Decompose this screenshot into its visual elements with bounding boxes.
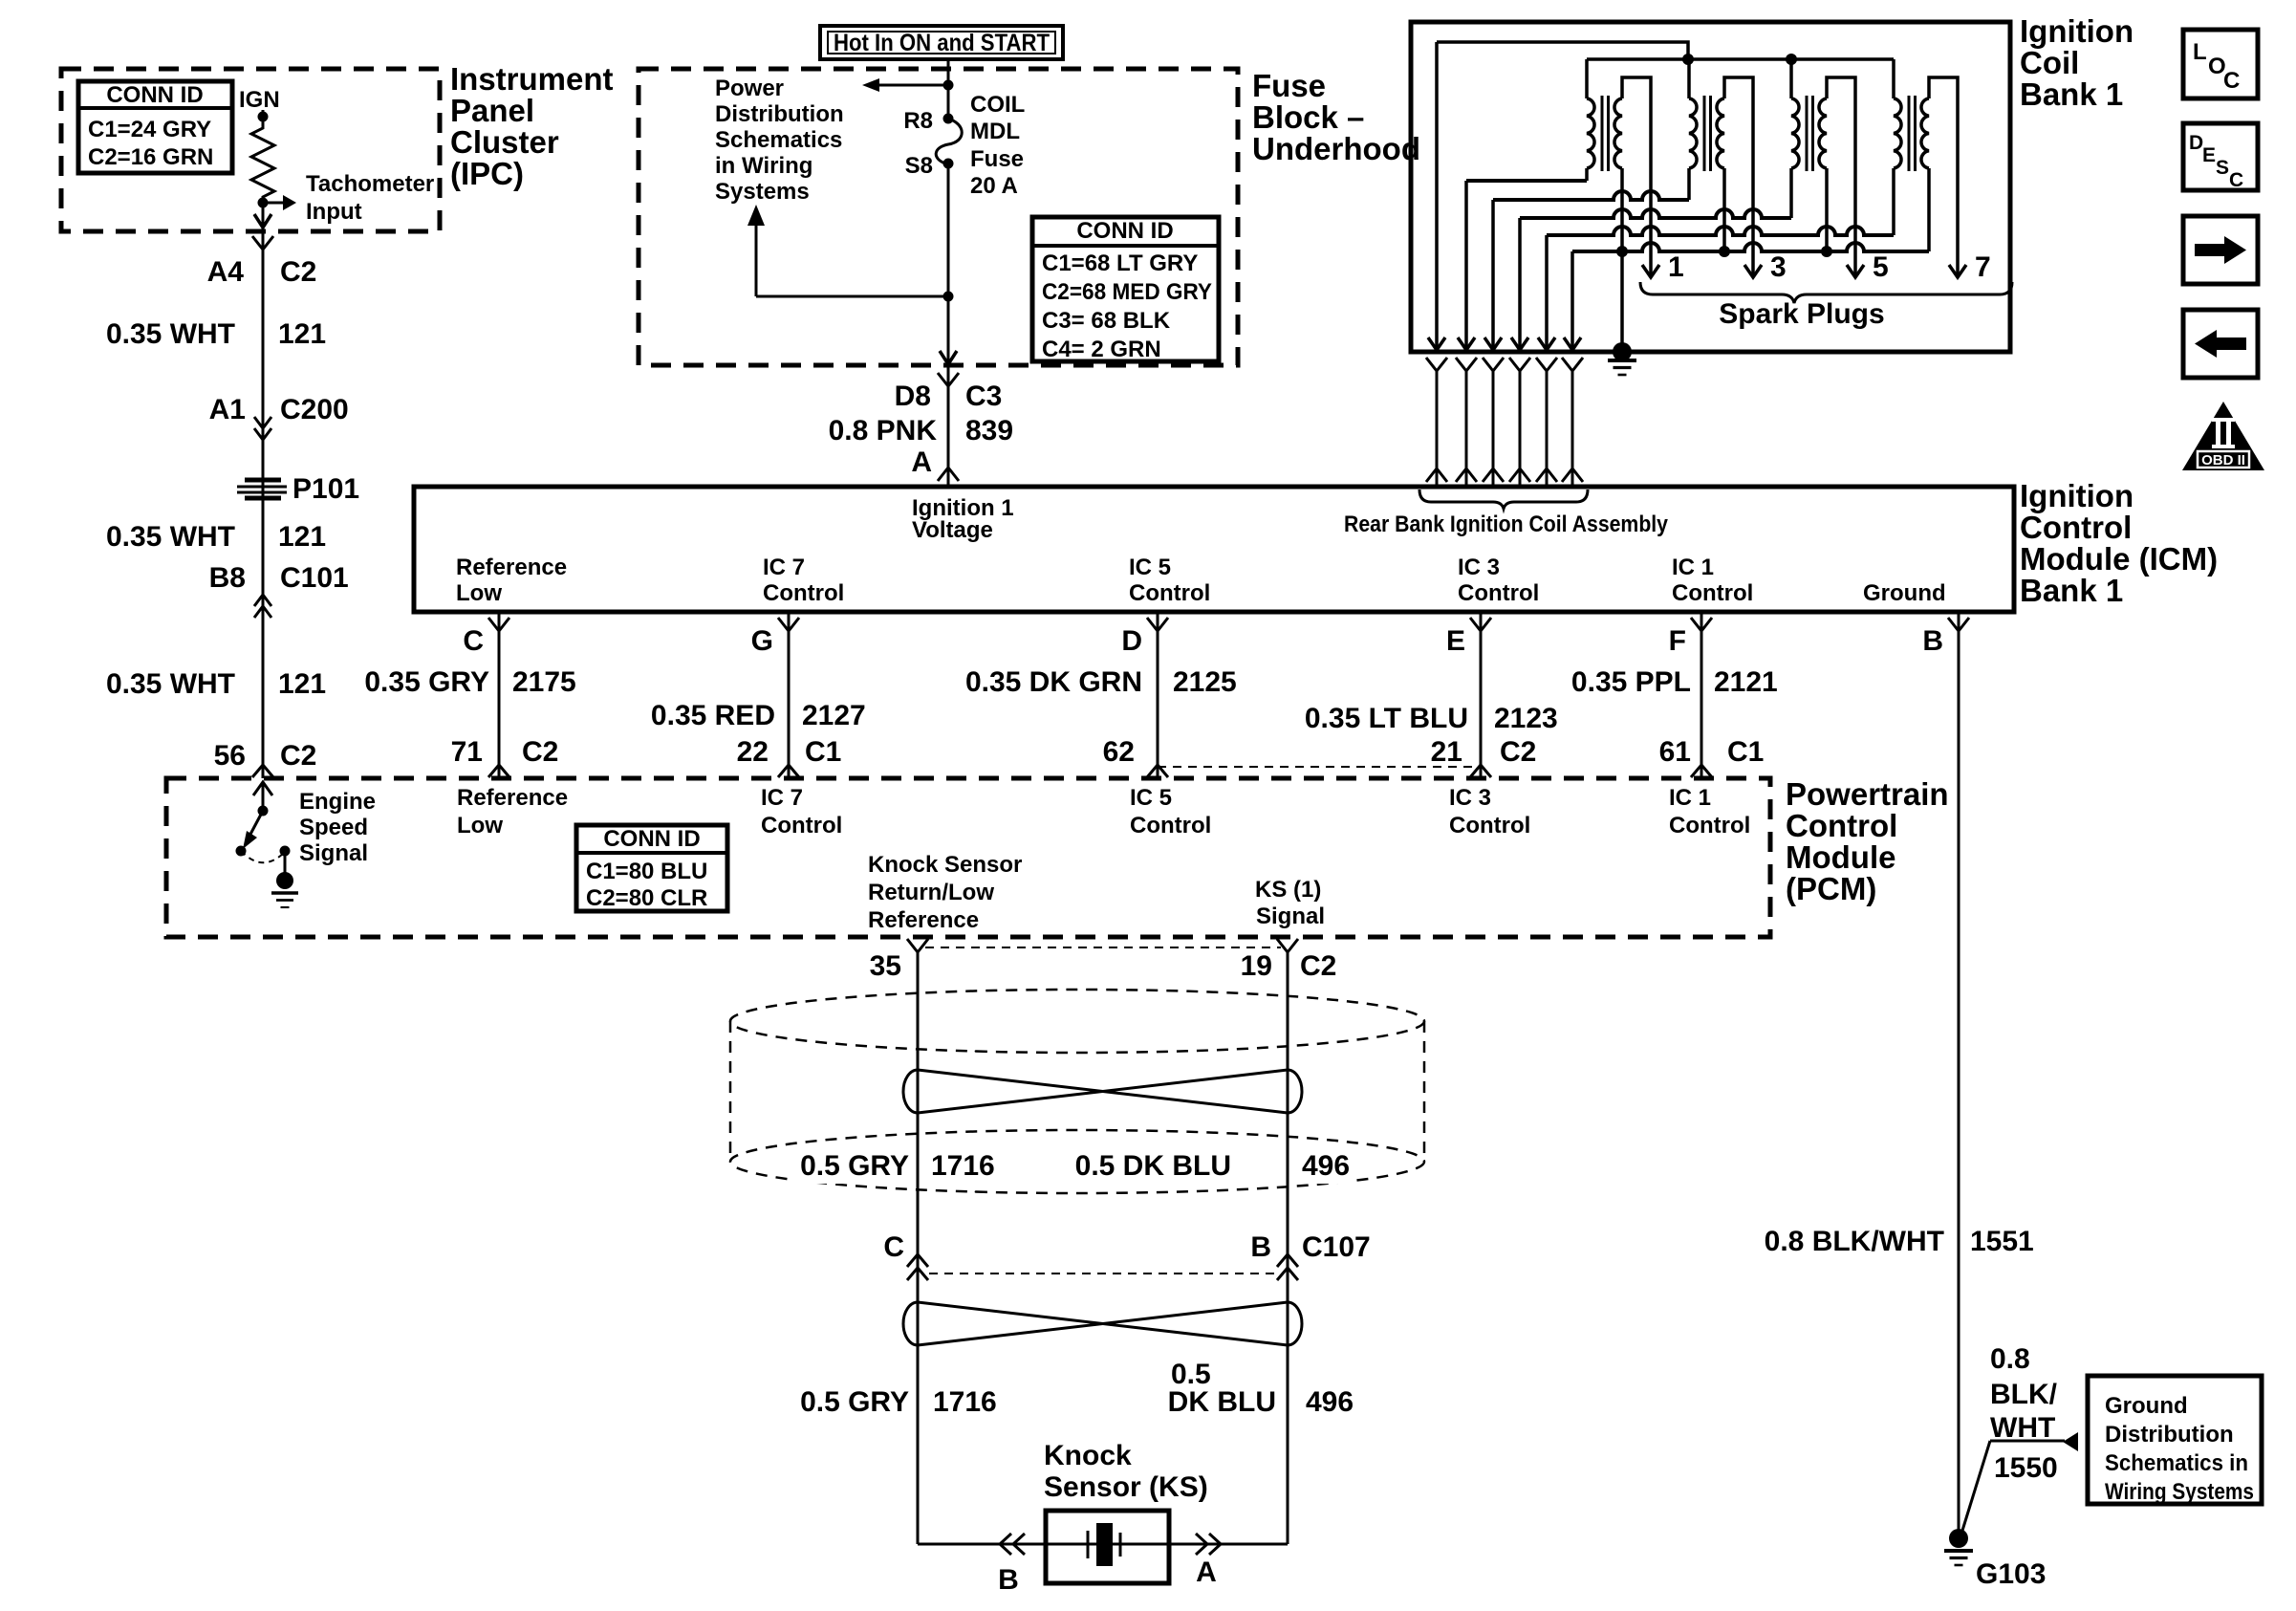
svg-text:S8: S8: [905, 153, 933, 179]
svg-text:Powertrain: Powertrain: [1786, 776, 1949, 812]
svg-text:Fuse: Fuse: [1252, 68, 1326, 103]
svg-text:C1=24 GRY: C1=24 GRY: [88, 117, 211, 142]
svg-text:0.35 WHT: 0.35 WHT: [106, 668, 235, 700]
svg-text:839: 839: [965, 415, 1013, 446]
svg-text:C1=80 BLU: C1=80 BLU: [586, 859, 707, 884]
svg-text:F: F: [1669, 625, 1686, 657]
svg-text:CONN ID: CONN ID: [1076, 218, 1173, 244]
svg-text:D: D: [1121, 625, 1142, 657]
svg-text:0.5 DK BLU: 0.5 DK BLU: [1075, 1150, 1231, 1182]
svg-text:IC 3: IC 3: [1458, 555, 1500, 580]
svg-text:0.8: 0.8: [1990, 1343, 2030, 1375]
svg-text:Spark Plugs: Spark Plugs: [1719, 298, 1884, 330]
svg-text:G103: G103: [1976, 1558, 2046, 1590]
svg-text:A1: A1: [209, 394, 246, 425]
svg-text:A: A: [1196, 1557, 1217, 1588]
svg-text:C1: C1: [805, 736, 841, 768]
svg-text:Return/Low: Return/Low: [868, 880, 994, 905]
svg-text:Knock Sensor: Knock Sensor: [868, 852, 1022, 878]
svg-text:496: 496: [1302, 1150, 1350, 1182]
svg-text:Bank 1: Bank 1: [2020, 573, 2123, 608]
svg-text:Systems: Systems: [715, 179, 810, 205]
svg-text:IC 1: IC 1: [1669, 785, 1711, 811]
svg-text:C: C: [2229, 169, 2243, 191]
svg-text:Coil: Coil: [2020, 45, 2079, 80]
svg-text:C3= 68 BLK: C3= 68 BLK: [1042, 308, 1171, 334]
svg-text:C2=80 CLR: C2=80 CLR: [586, 885, 707, 911]
svg-text:G: G: [751, 625, 773, 657]
svg-text:Low: Low: [457, 813, 503, 838]
svg-text:Control: Control: [1449, 813, 1530, 838]
svg-text:S: S: [2216, 157, 2229, 179]
svg-text:Control: Control: [1669, 813, 1750, 838]
svg-text:Panel: Panel: [450, 93, 534, 128]
svg-text:Reference: Reference: [868, 907, 979, 933]
svg-text:Distribution: Distribution: [2105, 1422, 2234, 1448]
svg-text:C101: C101: [280, 562, 349, 594]
svg-text:1550: 1550: [1994, 1452, 2058, 1484]
svg-text:19: 19: [1241, 950, 1272, 982]
svg-text:(PCM): (PCM): [1786, 871, 1876, 906]
svg-text:KS (1): KS (1): [1255, 877, 1321, 903]
svg-text:2125: 2125: [1173, 666, 1237, 698]
svg-text:Knock: Knock: [1044, 1440, 1132, 1471]
svg-text:0.8 BLK/WHT: 0.8 BLK/WHT: [1765, 1226, 1944, 1257]
svg-text:Control: Control: [1458, 580, 1539, 606]
svg-text:COIL: COIL: [970, 92, 1025, 118]
svg-text:Module (ICM): Module (ICM): [2020, 541, 2218, 577]
svg-text:0.35 LT BLU: 0.35 LT BLU: [1305, 703, 1468, 734]
svg-text:Reference: Reference: [457, 785, 568, 811]
svg-text:7: 7: [1975, 251, 1991, 283]
svg-text:Voltage: Voltage: [912, 517, 993, 543]
svg-text:0.35 DK GRN: 0.35 DK GRN: [965, 666, 1142, 698]
svg-text:A4: A4: [207, 256, 245, 288]
svg-text:E: E: [2202, 144, 2216, 166]
svg-text:D8: D8: [895, 381, 931, 412]
svg-text:L: L: [2193, 39, 2207, 65]
svg-text:0.35 WHT: 0.35 WHT: [106, 521, 235, 553]
svg-text:0.5 GRY: 0.5 GRY: [800, 1150, 909, 1182]
svg-text:B: B: [1250, 1231, 1271, 1263]
svg-text:IC 5: IC 5: [1129, 555, 1171, 580]
svg-text:Tachometer: Tachometer: [306, 171, 434, 197]
svg-text:Instrument: Instrument: [450, 61, 614, 97]
svg-text:C2: C2: [1500, 736, 1536, 768]
svg-text:C3: C3: [965, 381, 1002, 412]
svg-text:2127: 2127: [802, 700, 866, 731]
svg-text:Control: Control: [1129, 580, 1210, 606]
svg-text:CONN ID: CONN ID: [106, 82, 203, 108]
svg-text:Rear Bank Ignition Coil Assem: Rear Bank Ignition Coil Assembly: [1344, 512, 1669, 537]
svg-text:Control: Control: [761, 813, 842, 838]
svg-text:1: 1: [1668, 251, 1684, 283]
svg-text:Speed: Speed: [299, 815, 368, 840]
svg-text:21: 21: [1431, 736, 1462, 768]
svg-text:C2: C2: [522, 736, 558, 768]
svg-text:IC 1: IC 1: [1672, 555, 1714, 580]
svg-text:56: 56: [214, 740, 246, 772]
svg-text:0.35 PPL: 0.35 PPL: [1571, 666, 1691, 698]
svg-text:Control: Control: [2020, 510, 2132, 545]
svg-text:D: D: [2189, 132, 2203, 154]
svg-text:(IPC): (IPC): [450, 156, 524, 191]
svg-text:5: 5: [1873, 251, 1889, 283]
svg-text:OBD II: OBD II: [2201, 452, 2245, 468]
svg-text:MDL: MDL: [970, 119, 1020, 144]
svg-text:IC 7: IC 7: [763, 555, 805, 580]
svg-text:Distribution: Distribution: [715, 101, 844, 127]
svg-text:P101: P101: [292, 473, 359, 505]
svg-text:0.35 WHT: 0.35 WHT: [106, 318, 235, 350]
svg-text:Ignition: Ignition: [2020, 13, 2134, 49]
svg-text:R8: R8: [903, 108, 933, 134]
svg-text:C1: C1: [1727, 736, 1764, 768]
svg-text:Input: Input: [306, 199, 362, 225]
svg-text:IC 5: IC 5: [1130, 785, 1172, 811]
svg-text:Control: Control: [763, 580, 844, 606]
svg-text:Ignition: Ignition: [2020, 478, 2134, 513]
svg-text:71: 71: [451, 736, 483, 768]
svg-text:C200: C200: [280, 394, 349, 425]
svg-text:BLK/: BLK/: [1990, 1379, 2058, 1410]
svg-text:Control: Control: [1672, 580, 1753, 606]
svg-text:3: 3: [1770, 251, 1787, 283]
svg-text:B8: B8: [209, 562, 246, 594]
svg-text:1551: 1551: [1970, 1226, 2034, 1257]
svg-text:IC 3: IC 3: [1449, 785, 1491, 811]
svg-text:C: C: [463, 625, 484, 657]
svg-text:0.8 PNK: 0.8 PNK: [829, 415, 938, 446]
svg-text:CONN ID: CONN ID: [603, 826, 700, 852]
svg-text:Control: Control: [1130, 813, 1211, 838]
svg-text:1716: 1716: [931, 1150, 995, 1182]
svg-text:IC 7: IC 7: [761, 785, 803, 811]
svg-text:C2=16 GRN: C2=16 GRN: [88, 144, 213, 170]
svg-text:20 A: 20 A: [970, 173, 1018, 199]
svg-text:E: E: [1446, 625, 1465, 657]
svg-text:0.35 RED: 0.35 RED: [651, 700, 775, 731]
svg-text:C2: C2: [280, 740, 316, 772]
svg-text:Signal: Signal: [299, 840, 368, 866]
svg-text:in Wiring: in Wiring: [715, 153, 812, 179]
svg-text:Module: Module: [1786, 839, 1895, 875]
svg-text:Reference: Reference: [456, 555, 567, 580]
svg-text:Hot In ON and START: Hot In ON and START: [834, 30, 1050, 56]
svg-text:C2=68 MED GRY: C2=68 MED GRY: [1042, 279, 1212, 305]
svg-text:0.5 GRY: 0.5 GRY: [800, 1386, 909, 1418]
svg-text:Fuse: Fuse: [970, 146, 1024, 172]
svg-text:Bank 1: Bank 1: [2020, 76, 2123, 112]
svg-text:0.35 GRY: 0.35 GRY: [364, 666, 489, 698]
svg-text:Schematics in: Schematics in: [2105, 1450, 2248, 1476]
svg-text:Ground: Ground: [2105, 1393, 2188, 1419]
svg-text:Underhood: Underhood: [1252, 131, 1420, 166]
svg-text:A: A: [911, 446, 932, 478]
svg-text:Power: Power: [715, 76, 784, 101]
svg-text:B: B: [1922, 625, 1943, 657]
svg-text:121: 121: [278, 668, 326, 700]
svg-text:Schematics: Schematics: [715, 127, 842, 153]
svg-text:Ground: Ground: [1863, 580, 1946, 606]
svg-text:C1=68 LT GRY: C1=68 LT GRY: [1042, 250, 1198, 276]
svg-text:C107: C107: [1302, 1231, 1371, 1263]
svg-text:1716: 1716: [933, 1386, 997, 1418]
svg-text:C: C: [2223, 68, 2240, 94]
svg-text:61: 61: [1659, 736, 1691, 768]
svg-text:DK BLU: DK BLU: [1168, 1386, 1276, 1418]
svg-text:IGN: IGN: [239, 87, 280, 113]
svg-text:Low: Low: [456, 580, 502, 606]
svg-text:C: C: [883, 1231, 904, 1263]
svg-text:Wiring Systems: Wiring Systems: [2105, 1479, 2254, 1505]
svg-text:121: 121: [278, 318, 326, 350]
svg-text:Cluster: Cluster: [450, 124, 559, 160]
svg-text:35: 35: [870, 950, 901, 982]
svg-text:Control: Control: [1786, 808, 1897, 843]
svg-text:496: 496: [1306, 1386, 1354, 1418]
svg-text:62: 62: [1103, 736, 1135, 768]
svg-text:C2: C2: [1300, 950, 1336, 982]
svg-text:Engine: Engine: [299, 789, 376, 815]
svg-text:Block –: Block –: [1252, 99, 1364, 135]
svg-text:WHT: WHT: [1990, 1412, 2055, 1444]
svg-text:22: 22: [737, 736, 769, 768]
svg-text:2121: 2121: [1714, 666, 1778, 698]
svg-text:C2: C2: [280, 256, 316, 288]
svg-text:B: B: [998, 1564, 1019, 1596]
svg-text:2175: 2175: [512, 666, 576, 698]
svg-text:C4= 2 GRN: C4= 2 GRN: [1042, 337, 1161, 362]
svg-text:Sensor (KS): Sensor (KS): [1044, 1471, 1208, 1503]
svg-text:121: 121: [278, 521, 326, 553]
svg-text:2123: 2123: [1494, 703, 1558, 734]
svg-text:Signal: Signal: [1256, 903, 1325, 929]
